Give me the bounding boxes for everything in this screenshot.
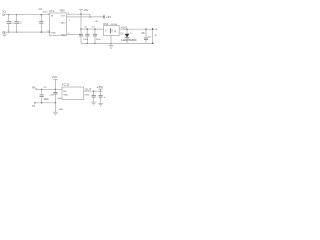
node dot C5 top: [87, 28, 89, 30]
node dot bend: [89, 16, 91, 18]
pin circle wire2 end: [34, 102, 35, 103]
svg-text:OUT: OUT: [61, 15, 66, 17]
svg-text:GND: GND: [63, 95, 68, 97]
node dot wire end: [100, 90, 102, 92]
svg-text:C3: C3: [39, 7, 43, 11]
node dot C3 bottom: [41, 31, 43, 33]
capacitor C5: [85, 29, 89, 43]
ground GND5: [98, 103, 103, 106]
wire output rail: [119, 28, 152, 30]
op IC1 regulator box: [50, 13, 67, 36]
svg-text:C10: C10: [49, 95, 54, 97]
svg-text:TX: TX: [32, 105, 36, 108]
svg-text:C8: C8: [141, 32, 145, 35]
svg-text:LED5MM: LED5MM: [121, 40, 137, 42]
node dot rail end: [103, 16, 105, 18]
svg-text:C1: C1: [10, 22, 14, 25]
node dot VCC wire1: [55, 89, 57, 91]
svg-text:RX: RX: [32, 86, 36, 89]
svg-text:IC1: IC1: [49, 9, 54, 13]
wire bend A to B: [89, 14, 91, 17]
svg-text:C9: C9: [44, 87, 48, 89]
wire bottom rail: [7, 31, 50, 33]
node dot C9 top: [41, 89, 43, 91]
svg-text:GND: GND: [59, 109, 64, 111]
wire out pin B: [67, 16, 105, 18]
ground GND1: [2, 32, 7, 37]
connector X2 bar: [152, 27, 154, 43]
node dot caprow: [80, 28, 82, 30]
pin circle wire1 end: [36, 89, 37, 90]
capacitor C6: [93, 29, 97, 43]
svg-text:+5V: +5V: [95, 21, 99, 23]
dc-dc module DC1 box: [104, 26, 120, 36]
wire cap row: [81, 28, 104, 30]
node dot LED top: [126, 28, 128, 30]
svg-text:GND: GND: [85, 94, 90, 96]
wire ground rail: [81, 42, 153, 44]
svg-text:IC2: IC2: [62, 83, 71, 87]
wire DC1 gnd drop: [110, 36, 112, 44]
svg-text:100n: 100n: [96, 39, 102, 41]
svg-text:100n: 100n: [43, 98, 49, 101]
wire top rail: [7, 14, 50, 16]
ground GND3: [53, 112, 58, 115]
node dot X2 pin2: [152, 43, 154, 45]
svg-text:-2: -2: [154, 34, 157, 37]
capacitor C11: [92, 91, 96, 102]
svg-text:10u: 10u: [148, 37, 152, 39]
net tick rail end: [103, 15, 105, 19]
power flag +5V bottom: [98, 89, 103, 91]
LED D1: [125, 29, 133, 43]
node dot wire2 end: [55, 102, 57, 104]
node dot pin2: [49, 31, 51, 33]
svg-text:DC1: DC1: [103, 23, 109, 26]
capacitor C3: [39, 15, 43, 32]
svg-text:VCC: VCC: [52, 75, 58, 79]
node dots C2: [16, 14, 17, 15]
node dots C1: [8, 14, 9, 15]
power flag +5V: [79, 10, 83, 15]
node dot gnd C5: [87, 43, 89, 45]
capacitor C10: [53, 89, 57, 103]
capacitor C9: [40, 89, 44, 103]
svg-text:D1: D1: [121, 33, 125, 36]
svg-text:+5V: +5V: [97, 85, 104, 89]
node dot gnd C6: [94, 43, 96, 45]
svg-text:7805: 7805: [60, 11, 66, 13]
wire IC1 gnd pin right: [67, 34, 82, 36]
mcu IC2 box: [62, 87, 84, 100]
node dot C6 top: [94, 28, 96, 30]
wire link down: [80, 14, 82, 29]
svg-text:ADJ: ADJ: [61, 21, 65, 24]
wire bottom wire2: [36, 102, 56, 104]
node dot C9 bottom: [41, 102, 43, 104]
svg-text:+: +: [104, 95, 106, 99]
node dot X2 pin1: [152, 28, 154, 30]
svg-text:+5V: +5V: [84, 8, 89, 12]
capacitor C2: [14, 15, 18, 32]
ground GND4: [91, 102, 96, 105]
node dot flag/rail: [80, 13, 82, 15]
svg-text:+1: +1: [154, 28, 157, 31]
wire right wire: [84, 90, 101, 92]
capacitor C8: [144, 29, 148, 43]
svg-text:o): o): [114, 30, 116, 33]
wire bottom wire1: [37, 88, 62, 90]
svg-text:+5V: +5V: [106, 15, 111, 19]
node dot C8 top: [145, 28, 147, 30]
svg-text:GND: GND: [51, 32, 56, 34]
svg-text:C2: C2: [18, 22, 22, 25]
wire gnd drop bottom: [54, 103, 56, 112]
node dot C3 top: [41, 14, 43, 16]
capacitor C4: [79, 29, 83, 43]
svg-text:+: +: [105, 28, 107, 32]
capacitor C12 polarized: [99, 91, 103, 103]
power flag VCC bottom: [53, 79, 58, 89]
svg-text:C6: C6: [92, 27, 96, 29]
svg-text:100n: 100n: [83, 39, 89, 41]
svg-text:C5: C5: [84, 27, 88, 29]
svg-text:IN: IN: [51, 15, 54, 17]
node dot C11 top: [93, 90, 95, 92]
wire out pin A: [67, 13, 91, 15]
svg-text:IN+: IN+: [63, 91, 67, 93]
node dot gnd DC1: [110, 43, 112, 45]
connector X1: [3, 14, 7, 33]
ground GND2: [109, 43, 114, 48]
symbol isolation bars: [110, 28, 112, 33]
capacitor C1: [7, 15, 11, 32]
svg-text:1: 1: [69, 20, 71, 22]
svg-text:0505S: 0505S: [111, 24, 118, 26]
svg-text:GND: GND: [61, 34, 66, 36]
svg-text:X1: X1: [2, 10, 6, 14]
